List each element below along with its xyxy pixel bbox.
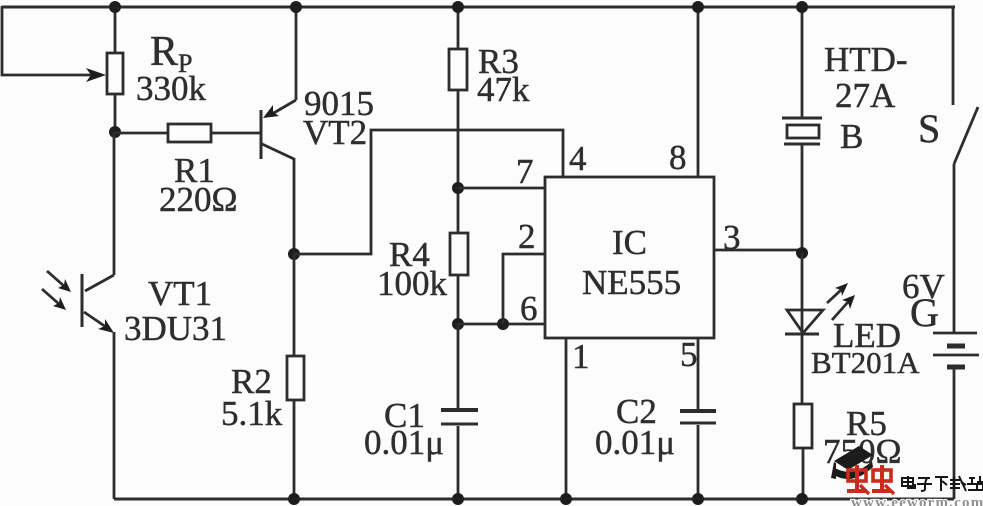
node: pin8 on top rail [692,1,704,13]
svg-text:330k: 330k [136,69,207,108]
light arrows into VT1 [42,271,71,310]
svg-text:220Ω: 220Ω [159,180,238,219]
pin 5 wire [697,338,700,409]
node: VT2 collector junction [288,248,300,260]
svg-text:BT201A: BT201A [811,345,920,380]
node: C1 bottom [452,493,464,505]
label C1 0.01u [364,396,444,462]
label RP [136,29,207,108]
node: R5 bottom [796,493,808,505]
wire: pin 6 [458,323,545,326]
label R4 100k [377,235,448,303]
svg-text:S: S [918,106,940,151]
potentiometer RP body [107,7,123,132]
label C2 0.01u [595,392,675,462]
label LED BT201A [811,316,920,380]
capacitor C1 [441,324,478,499]
label 9015 VT2 [303,84,374,152]
watermark logo cap [831,446,873,479]
svg-text:NE555: NE555 [582,263,681,302]
watermark chars dian-zi-xia-zai-zhan (black) [902,476,983,491]
svg-text:B: B [840,117,863,156]
svg-text:5: 5 [680,335,698,374]
label R5 750ohm [823,404,902,471]
wire: left edge vertical to wiper [2,6,93,75]
node: pin2/pin6 tie [497,318,509,330]
node: R4 bottom / pin6 junction [452,318,464,330]
node: VT2 emitter on top rail [290,1,302,13]
svg-text:8: 8 [669,138,687,177]
LED emission arrows [827,283,855,320]
wire: pin 7 [458,187,545,190]
svg-text:6: 6 [520,289,538,328]
node: R3 top on rail [452,1,464,13]
pin 8 wire [697,7,700,177]
svg-text:VT1: VT1 [148,274,212,313]
svg-text:4: 4 [569,139,587,178]
battery G 6V [933,333,979,499]
watermark chars chong-chong (red) [847,465,894,494]
op IC NE555 box [545,177,714,338]
svg-text:47k: 47k [477,70,530,109]
capacitor C2 [680,411,716,499]
svg-text:0.01μ: 0.01μ [595,423,675,462]
label R3 47k [477,42,530,109]
pin 1 wire [565,338,568,499]
node: C2 bottom [692,493,704,505]
label R1 220ohm [159,151,238,219]
svg-text:HTD-: HTD- [824,40,908,79]
svg-text:VT2: VT2 [303,113,367,152]
label R2 5.1k [221,362,283,433]
node: pin1 bottom [560,493,572,505]
label HTD-27A B [824,40,908,156]
wire: top supply rail [2,6,955,9]
svg-text:G: G [910,290,939,335]
svg-text:IC: IC [612,223,647,262]
phototransistor VT1 (3DU31) [82,132,114,499]
wire: collector to pin 4 [294,130,563,254]
wire: bottom ground rail [114,498,954,501]
svg-text:2: 2 [518,217,536,256]
transistor VT2 (9015 PNP) [261,7,296,254]
svg-text:www.eeworm.com: www.eeworm.com [851,495,983,506]
svg-text:7: 7 [516,152,534,191]
svg-text:0.01μ: 0.01μ [364,423,444,462]
resistor R1 [115,124,261,142]
label VT1 3DU31 [124,274,227,348]
svg-text:100k: 100k [377,264,448,303]
svg-text:3: 3 [723,218,741,257]
wiper arrow into Rp [86,68,106,82]
resistor R4 [450,233,468,324]
resistor R3 [449,7,467,233]
wire: pin 2 [503,254,545,324]
LED BT201A [785,253,823,404]
svg-text:5.1k: 5.1k [221,394,283,433]
label 6V G [902,267,945,335]
pin 3 wire [714,249,802,252]
node: pin3 / LED line junction [796,247,808,259]
node: R3/R4 pin7 junction [452,182,464,194]
switch S [953,7,978,333]
svg-text:27A: 27A [835,76,896,115]
node: RP bottom junction [109,126,121,138]
node: R2 bottom [288,493,300,505]
buzzer B HTD-27A [782,7,822,253]
resistor R5 [794,404,812,499]
svg-text:1: 1 [572,337,590,376]
node: buzzer top on rail [796,1,808,13]
resistor R2 [287,254,304,499]
node: top rail / RP junction [109,1,121,13]
svg-text:3DU31: 3DU31 [124,309,227,348]
